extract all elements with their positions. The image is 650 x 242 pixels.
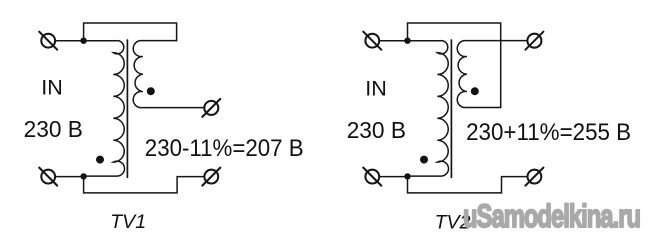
terminal X2 (TV1 input bottom-left): [39, 168, 57, 186]
svg-text:230 В: 230 В: [24, 116, 83, 142]
wire X2 to node B: [55, 176, 84, 178]
winding secondary TV2: [457, 41, 470, 108]
wire X1 to node A: [55, 40, 84, 42]
wire secondary output TV1: [147, 107, 205, 109]
polarity dot primary TV2: [420, 156, 428, 164]
wire bottom rail TV1: [84, 177, 205, 193]
svg-text:TV1: TV1: [110, 211, 146, 233]
terminal X1 (TV1 input top-left): [39, 32, 57, 50]
terminal X6 (TV2 input bottom-left): [363, 168, 381, 186]
wire top rail TV2 (node C up, across, down to secondary bottom): [408, 23, 501, 108]
svg-text:230+11%=255 В: 230+11%=255 В: [466, 119, 631, 146]
polarity dot primary TV1: [96, 156, 104, 164]
core TV2: [450, 40, 452, 177]
svg-text:uSamodelkina.ru: uSamodelkina.ru: [463, 199, 640, 236]
terminal X4 (TV1 bottom-right): [202, 168, 220, 186]
junction node A: [80, 38, 86, 44]
terminal X5 (TV2 input top-left): [363, 32, 381, 50]
winding primary TV1: [84, 41, 125, 176]
core TV1: [126, 40, 128, 177]
winding primary TV2: [408, 41, 449, 176]
junction node B: [80, 173, 86, 179]
terminal X7 (TV2 output top-right): [525, 32, 543, 50]
junction node D: [404, 173, 410, 179]
junction node C: [404, 38, 410, 44]
wire secondary top lead TV1: [140, 40, 177, 42]
polarity dot secondary TV2: [471, 87, 479, 95]
terminal X3 (TV1 output mid-right): [202, 99, 220, 117]
wire secondary bottom lead TV2: [470, 107, 500, 109]
wire X6 to node D: [379, 176, 407, 178]
svg-text:IN: IN: [365, 76, 387, 100]
polarity dot secondary TV1: [147, 87, 155, 95]
wire top rail TV1 (node A up, across, down to secondary top): [84, 23, 177, 41]
wire secondary output TV2 (to top-right terminal, crosses rail): [464, 40, 528, 42]
terminal X8 (TV2 bottom-right): [525, 168, 543, 186]
wire X5 to node C: [379, 40, 407, 42]
svg-text:IN: IN: [41, 75, 63, 99]
svg-text:230-11%=207 В: 230-11%=207 В: [145, 135, 304, 162]
winding secondary TV1: [133, 41, 146, 108]
svg-text:230 В: 230 В: [347, 117, 406, 143]
watermark uSamodelkina.ru: [463, 199, 640, 236]
wire bottom rail TV2: [408, 177, 528, 193]
